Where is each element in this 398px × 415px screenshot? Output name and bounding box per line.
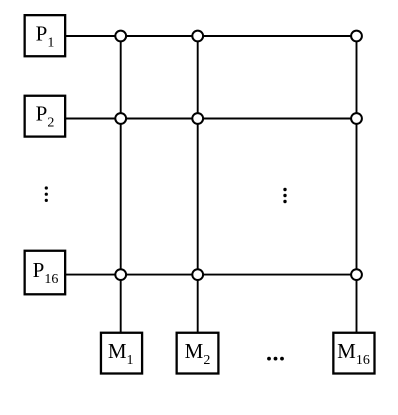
memory box M2: [177, 333, 219, 374]
vertical ellipsis mid grid: [283, 188, 286, 203]
node crosspoint row1 col2: [192, 31, 203, 42]
node crosspoint row1 col3: [351, 31, 362, 42]
wire row P16 horizontal: [65, 274, 357, 276]
wire column M2 vertical: [197, 36, 199, 333]
vertical ellipsis between P2 and P16: [45, 186, 48, 202]
node crosspoint row2 col2: [192, 113, 203, 124]
node crosspoint row1 col1: [115, 31, 126, 42]
processor box P2: [25, 96, 66, 137]
node crosspoint row3 col1: [115, 269, 126, 280]
node crosspoint row3 col3: [351, 269, 362, 280]
node crosspoint row2 col1: [115, 113, 126, 124]
memory box M1: [101, 333, 142, 374]
processor box P1: [25, 15, 66, 56]
wire row P1 horizontal: [65, 35, 357, 37]
horizontal ellipsis between M2 and M16: [267, 357, 284, 361]
wire column M16 vertical: [356, 36, 358, 333]
node crosspoint row2 col3: [351, 113, 362, 124]
wire row P2 horizontal: [65, 118, 357, 120]
wire column M1 vertical: [120, 36, 122, 333]
node crosspoint row3 col2: [192, 269, 203, 280]
memory box M16: [333, 333, 374, 374]
processor box P16: [25, 251, 66, 295]
